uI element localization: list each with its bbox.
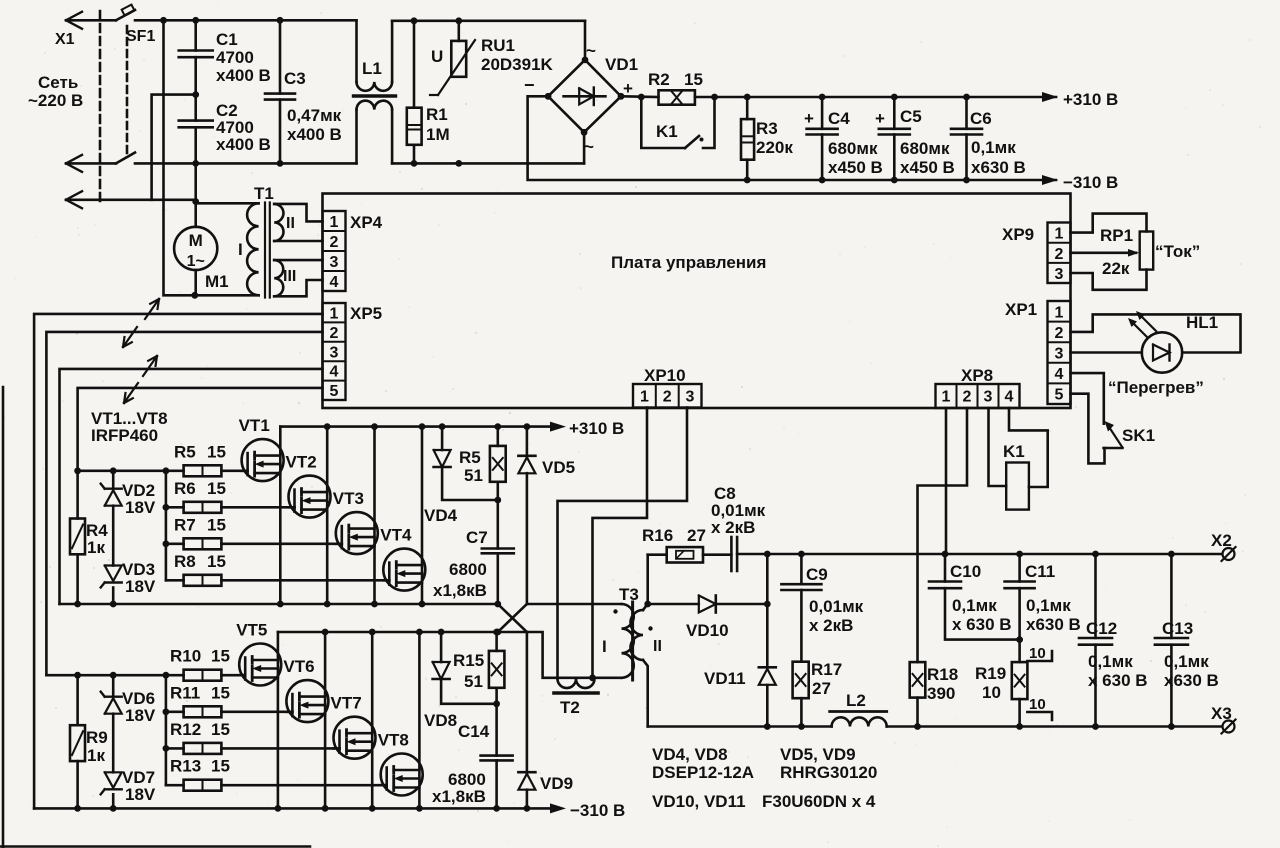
capacitor C9	[781, 554, 863, 662]
resistor R3	[741, 97, 793, 180]
wire XP5 pin4 bus	[60, 369, 323, 604]
svg-text:VD11: VD11	[704, 669, 746, 688]
wire gate bus upper	[74, 467, 183, 580]
wire bridge + output	[621, 94, 659, 101]
svg-text:x1,8кВ: x1,8кВ	[433, 581, 487, 600]
svg-text:VT7: VT7	[331, 694, 362, 713]
resistor R5 15	[174, 442, 226, 476]
terminal X3	[1211, 704, 1236, 734]
capacitor C5	[875, 97, 955, 180]
svg-text:II: II	[286, 215, 295, 232]
thermal switch SK1	[1071, 373, 1156, 463]
svg-text:C9: C9	[806, 565, 828, 584]
svg-text:15: 15	[211, 647, 230, 666]
wire XP10 pin3 to T2	[558, 408, 688, 679]
transistor VT2	[221, 427, 330, 604]
label diode types	[652, 745, 877, 811]
wire drain rail lower block	[278, 629, 527, 636]
svg-text:18V: 18V	[125, 785, 156, 804]
connector XP10	[633, 366, 702, 408]
svg-text:“Перегрев”: “Перегрев”	[1108, 378, 1204, 397]
svg-text:R5: R5	[174, 442, 196, 461]
svg-text:I: I	[238, 240, 243, 259]
svg-text:2: 2	[330, 325, 339, 342]
resistor R12 15	[170, 720, 230, 754]
svg-text:4: 4	[330, 364, 339, 381]
potentiometer RP1	[1071, 214, 1201, 290]
svg-text:6800: 6800	[449, 560, 487, 579]
capacitor C7	[433, 500, 514, 604]
wire neutral	[66, 199, 196, 202]
terminal X2	[1211, 531, 1236, 561]
svg-text:x400 В: x400 В	[216, 66, 271, 85]
switch SF1	[66, 5, 155, 164]
svg-text:18V: 18V	[125, 706, 156, 725]
transistor VT7	[221, 632, 375, 808]
transistor VT6	[221, 632, 328, 808]
current transformer T2	[554, 679, 598, 717]
capacitor C13	[1155, 554, 1219, 727]
svg-text:X2: X2	[1211, 531, 1232, 550]
svg-text:~: ~	[586, 41, 596, 60]
wire T1-III to XP4 pins 3,4	[274, 260, 322, 296]
LED HL1	[1071, 311, 1241, 373]
label -310 V	[1042, 173, 1118, 192]
svg-text:C12: C12	[1086, 619, 1117, 638]
svg-text:M1: M1	[205, 272, 229, 291]
svg-text:22к: 22к	[1102, 259, 1130, 278]
svg-text:1к: 1к	[87, 746, 105, 765]
wire crossover X	[494, 601, 527, 636]
wire XP5 pin5 bus	[78, 388, 323, 471]
svg-text:R16: R16	[642, 526, 673, 545]
svg-text:18V: 18V	[125, 577, 156, 596]
svg-text:RU1: RU1	[481, 36, 515, 55]
svg-text:IRFP460: IRFP460	[91, 426, 158, 445]
svg-text:II: II	[653, 638, 662, 655]
svg-text:R6: R6	[174, 479, 196, 498]
svg-text:+310 В: +310 В	[569, 419, 624, 438]
svg-text:15: 15	[211, 683, 230, 702]
wire XP5 pin2 bus	[46, 332, 322, 675]
wire XP10 pin1 to T2	[589, 408, 647, 682]
break arrow on XP5 pin1 wire	[145, 299, 159, 319]
svg-text:1~: 1~	[187, 253, 205, 270]
svg-text:R11: R11	[170, 683, 200, 702]
wire mains top	[135, 17, 357, 24]
svg-text:R1: R1	[426, 105, 448, 124]
resistor R13 15	[170, 757, 230, 791]
svg-text:220к: 220к	[756, 138, 793, 157]
svg-text:C1: C1	[216, 30, 238, 49]
break arrow on XP5 pin5 wire	[124, 383, 138, 403]
svg-text:1M: 1M	[426, 125, 450, 144]
svg-text:U: U	[431, 47, 443, 66]
svg-text:XP9: XP9	[1002, 225, 1034, 244]
svg-text:0,47мк: 0,47мк	[287, 106, 342, 125]
capacitor C6	[951, 97, 1026, 180]
svg-text:VD5: VD5	[542, 458, 575, 477]
wire XP8 pin1 to X2 rail	[945, 408, 948, 554]
svg-text:x1,8кВ: x1,8кВ	[432, 787, 486, 806]
svg-text:2: 2	[1055, 246, 1064, 263]
svg-text:VD10, VD11: VD10, VD11	[652, 792, 746, 811]
diode VD5	[518, 427, 575, 604]
transistor VT8	[221, 632, 422, 808]
resistor R18 390	[910, 662, 958, 726]
resistor R10 15	[170, 647, 230, 681]
wire XP8 pin3 to K1	[989, 408, 1007, 486]
svg-text:390: 390	[927, 684, 955, 703]
capacitor C4	[804, 97, 883, 180]
inductor L2	[830, 691, 887, 727]
resistor R5 51	[459, 427, 506, 504]
connector XP5	[323, 303, 383, 400]
svg-text:+: +	[804, 109, 814, 128]
wire X2 rail	[737, 551, 1222, 558]
capacitor C2	[179, 95, 271, 164]
svg-text:VT5: VT5	[236, 621, 267, 640]
svg-text:XP5: XP5	[350, 304, 382, 323]
zener VD6	[101, 675, 156, 772]
transistor VT5	[221, 621, 281, 809]
svg-text:VT3: VT3	[333, 489, 364, 508]
svg-text:C4: C4	[828, 109, 850, 128]
label +310 V	[1042, 90, 1118, 109]
svg-text:R8: R8	[174, 552, 196, 571]
tap marks R19	[1027, 645, 1052, 720]
svg-text:0,1мк: 0,1мк	[971, 138, 1016, 157]
resistor R9	[70, 675, 108, 808]
transistor VT4	[221, 427, 425, 604]
connector X1 boundary (dashed)	[99, 11, 102, 203]
svg-text:0,1мк: 0,1мк	[952, 596, 997, 615]
svg-text:0,1мк: 0,1мк	[1088, 652, 1133, 671]
svg-text:VT4: VT4	[380, 526, 412, 545]
motor M1 (fan)	[174, 203, 229, 295]
svg-text:2: 2	[1055, 325, 1064, 342]
svg-text:680мк: 680мк	[828, 139, 878, 158]
svg-text:27: 27	[812, 679, 831, 698]
wire X3 rail	[648, 723, 1222, 730]
resistor R17 27	[793, 660, 843, 727]
svg-text:SK1: SK1	[1122, 426, 1155, 445]
svg-text:15: 15	[684, 70, 703, 89]
svg-text:3: 3	[330, 254, 339, 271]
connector XP9	[1002, 223, 1071, 284]
svg-text:2: 2	[963, 389, 972, 406]
svg-text:C6: C6	[970, 109, 992, 128]
svg-text:x400 В: x400 В	[216, 135, 271, 154]
relay coil K1	[1003, 442, 1029, 510]
svg-text:x 630 В: x 630 В	[1088, 671, 1148, 690]
inductor L1	[354, 20, 396, 163]
wire filter to bridge bottom	[392, 160, 584, 167]
svg-text:C7: C7	[466, 528, 488, 547]
svg-text:VD10: VD10	[686, 621, 729, 640]
svg-text:−310 В: −310 В	[570, 801, 625, 820]
svg-text:x630 В: x630 В	[1164, 671, 1219, 690]
svg-text:x 2кВ: x 2кВ	[809, 616, 853, 635]
svg-text:Плата управления: Плата управления	[611, 253, 766, 272]
svg-text:x400 В: x400 В	[287, 125, 342, 144]
svg-text:15: 15	[211, 720, 230, 739]
varistor RU1	[430, 21, 554, 95]
svg-text:XP1: XP1	[1005, 300, 1037, 319]
svg-text:VD4, VD8: VD4, VD8	[652, 745, 728, 764]
switch SF1 linkage (dashed)	[126, 26, 129, 158]
diode VD9	[518, 632, 573, 808]
svg-text:3: 3	[984, 389, 993, 406]
resistor R16 27	[642, 526, 731, 607]
svg-text:680мк: 680мк	[900, 139, 950, 158]
resistor R6 15	[174, 479, 226, 513]
wire C1/C2 midpoint to neutral	[152, 95, 196, 200]
svg-text:X1: X1	[55, 31, 75, 48]
svg-text:R19: R19	[975, 664, 1006, 683]
svg-text:15: 15	[207, 515, 226, 534]
svg-text:4: 4	[330, 274, 339, 291]
svg-text:x450 В: x450 В	[828, 158, 883, 177]
svg-text:2: 2	[663, 389, 672, 406]
control board	[323, 194, 1071, 409]
wire +310V rail	[695, 94, 1056, 101]
label VT1...VT8 IRFP460	[91, 409, 168, 445]
svg-text:18V: 18V	[125, 498, 156, 517]
svg-text:1: 1	[1055, 304, 1064, 321]
wire gate bus lower	[46, 672, 183, 785]
svg-text:3: 3	[686, 389, 695, 406]
svg-text:T1: T1	[254, 184, 274, 203]
break arrow on XP5 pin2 wire	[123, 327, 137, 347]
capacitor C10	[929, 554, 1020, 640]
svg-text:R13: R13	[170, 757, 201, 776]
capacitor C11	[1005, 554, 1081, 662]
svg-text:RHRG30120: RHRG30120	[780, 763, 877, 782]
svg-text:K1: K1	[656, 122, 678, 141]
svg-text:x 630 В: x 630 В	[952, 615, 1012, 634]
svg-text:R12: R12	[170, 720, 201, 739]
svg-text:T2: T2	[560, 698, 580, 717]
svg-text:10: 10	[982, 683, 1001, 702]
svg-text:X3: X3	[1211, 704, 1232, 723]
resistor R7 15	[174, 515, 226, 549]
wire switched live to M1/T1	[164, 20, 259, 298]
label X1 / Сеть ~220В	[28, 31, 83, 110]
svg-text:RP1: RP1	[1100, 226, 1133, 245]
svg-text:27: 27	[687, 526, 706, 545]
svg-text:VD9: VD9	[540, 774, 573, 793]
capacitor C8	[711, 484, 766, 571]
resistor R11 15	[170, 683, 230, 717]
wire -310V rail	[528, 96, 1056, 183]
svg-text:DSEP12-12A: DSEP12-12A	[652, 763, 754, 782]
diode VD8	[424, 632, 497, 730]
transformer T3	[602, 585, 662, 727]
svg-text:10: 10	[1029, 696, 1046, 713]
svg-text:R17: R17	[811, 660, 842, 679]
wire +310V rail upper block	[280, 419, 624, 438]
resistor R19 10	[975, 662, 1027, 726]
svg-text:XP8: XP8	[961, 366, 993, 385]
svg-text:R15: R15	[453, 651, 484, 670]
svg-text:15: 15	[211, 757, 230, 776]
svg-text:VT8: VT8	[378, 731, 409, 750]
svg-text:R18: R18	[927, 665, 958, 684]
svg-text:C11: C11	[1025, 562, 1055, 581]
svg-text:10: 10	[1029, 645, 1046, 662]
svg-text:VD1: VD1	[605, 55, 638, 74]
svg-text:I: I	[602, 637, 607, 656]
svg-text:C3: C3	[284, 69, 306, 88]
svg-text:0,01мк: 0,01мк	[809, 597, 864, 616]
svg-text:F30U60DN x 4: F30U60DN x 4	[762, 792, 876, 811]
svg-text:R10: R10	[170, 647, 201, 666]
svg-text:4: 4	[1055, 366, 1064, 383]
wire XP8 pin2 to R18	[918, 408, 968, 662]
bridge rectifier VD1	[524, 21, 638, 164]
svg-text:1: 1	[942, 389, 951, 406]
resistor R1	[407, 21, 450, 164]
transformer T1	[238, 184, 296, 298]
transistor VT3	[221, 427, 377, 604]
svg-text:SF1: SF1	[126, 28, 155, 45]
capacitor C12	[1079, 554, 1148, 727]
resistor R2	[648, 70, 703, 105]
break arrow on XP5 pin4 wire	[143, 356, 157, 376]
relay contact K1	[641, 97, 714, 148]
diode VD4	[424, 427, 498, 525]
zener VD2	[101, 471, 156, 566]
scan edge artifacts	[0, 387, 310, 848]
capacitor C1	[179, 20, 271, 98]
svg-text:XP10: XP10	[644, 366, 686, 385]
svg-text:3: 3	[1055, 346, 1064, 363]
capacitor C3	[265, 20, 342, 163]
svg-text:51: 51	[464, 466, 483, 485]
capacitor C14	[432, 704, 513, 809]
svg-text:4: 4	[1005, 389, 1014, 406]
wire mains bottom	[135, 160, 357, 167]
label Перегрев	[1108, 378, 1204, 397]
svg-text:III: III	[283, 268, 296, 285]
wire bridge output to T3 top	[527, 603, 622, 606]
svg-text:3: 3	[330, 344, 339, 361]
svg-text:VD4: VD4	[424, 506, 458, 525]
connector XP4	[323, 211, 383, 291]
svg-text:R5: R5	[459, 448, 481, 467]
svg-text:20D391K: 20D391K	[481, 55, 554, 74]
wire neutral to T1	[192, 163, 258, 205]
zener VD7	[101, 768, 156, 808]
svg-text:x 2кВ: x 2кВ	[711, 518, 755, 537]
svg-text:−310 В: −310 В	[1063, 173, 1118, 192]
svg-text:K1: K1	[1003, 442, 1025, 461]
wire T1-II to XP4 pins 1,2	[274, 204, 322, 241]
wire -310V rail lower block	[34, 801, 625, 820]
X1 terminal arrows	[66, 12, 82, 209]
wire midpoint rail upper block	[60, 601, 498, 608]
svg-text:XP4: XP4	[350, 213, 383, 232]
svg-text:1: 1	[330, 306, 339, 323]
svg-text:C5: C5	[900, 107, 922, 126]
svg-text:VT1: VT1	[239, 416, 270, 435]
wire XP8 pin4 to K1	[1009, 408, 1048, 487]
svg-text:5: 5	[1055, 387, 1064, 404]
svg-text:2: 2	[330, 234, 339, 251]
svg-text:Сеть: Сеть	[38, 73, 78, 92]
svg-text:+310 В: +310 В	[1063, 90, 1118, 109]
svg-text:~220 В: ~220 В	[28, 91, 83, 110]
svg-text:C10: C10	[950, 562, 981, 581]
svg-text:0,1мк: 0,1мк	[1026, 596, 1071, 615]
connector XP1	[1005, 300, 1071, 404]
svg-text:VD5, VD9: VD5, VD9	[780, 745, 856, 764]
svg-text:4700: 4700	[216, 48, 254, 67]
svg-text:1: 1	[330, 214, 339, 231]
svg-text:x630 В: x630 В	[971, 158, 1026, 177]
svg-text:0,1мк: 0,1мк	[1164, 652, 1209, 671]
svg-text:1: 1	[640, 389, 649, 406]
svg-text:−: −	[524, 75, 535, 95]
svg-text:~: ~	[584, 137, 594, 156]
svg-text:x630 В: x630 В	[1026, 615, 1081, 634]
resistor R4	[70, 471, 108, 604]
zener VD3	[101, 560, 156, 604]
svg-text:VD8: VD8	[424, 711, 457, 730]
svg-text:T3: T3	[619, 585, 639, 604]
svg-text:5: 5	[330, 383, 339, 400]
svg-text:1: 1	[1055, 226, 1064, 243]
wire filter to bridge top	[392, 17, 585, 24]
svg-text:HL1: HL1	[1186, 313, 1218, 332]
svg-text:+: +	[875, 109, 885, 128]
diode VD10	[648, 596, 771, 641]
resistor R15 51	[453, 632, 504, 707]
svg-text:C13: C13	[1162, 619, 1193, 638]
svg-text:VT2: VT2	[286, 453, 317, 472]
svg-text:1к: 1к	[87, 538, 105, 557]
svg-text:R3: R3	[756, 119, 778, 138]
svg-text:L1: L1	[362, 59, 382, 78]
svg-text:51: 51	[464, 672, 483, 691]
svg-text:3: 3	[1055, 266, 1064, 283]
svg-text:R9: R9	[86, 728, 108, 747]
svg-text:L2: L2	[846, 691, 866, 710]
svg-text:R2: R2	[648, 70, 670, 89]
resistor R8 15	[174, 552, 226, 586]
svg-text:15: 15	[207, 442, 226, 461]
svg-text:M: M	[189, 231, 203, 250]
svg-text:15: 15	[207, 479, 226, 498]
wire bridge output via T2 primary	[527, 632, 622, 678]
svg-text:x450 В: x450 В	[900, 158, 955, 177]
svg-text:VT6: VT6	[283, 657, 314, 676]
svg-text:R7: R7	[174, 515, 196, 534]
svg-text:15: 15	[207, 552, 226, 571]
wire XP5 pin1 bus	[34, 314, 322, 809]
transistor VT1	[221, 416, 283, 604]
connector XP8	[936, 366, 1020, 408]
diode VD11	[704, 554, 776, 727]
svg-text:“Ток”: “Ток”	[1155, 242, 1200, 261]
svg-text:C14: C14	[458, 722, 490, 741]
